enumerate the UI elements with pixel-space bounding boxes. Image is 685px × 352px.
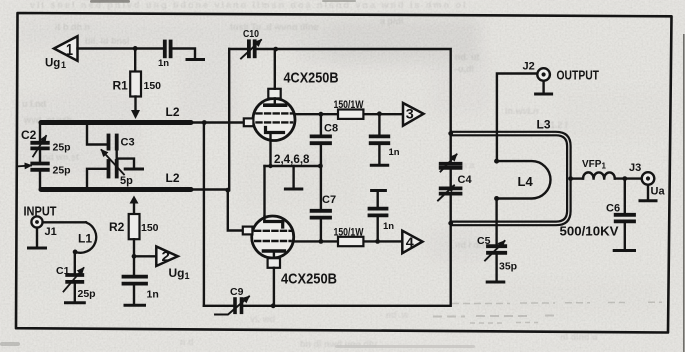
svg-text:25p: 25p bbox=[78, 288, 96, 300]
ground (J2) bbox=[536, 93, 552, 96]
inductor L3 (anode line, double) bbox=[451, 132, 571, 225]
inductor L2 (bottom bar) bbox=[41, 187, 191, 192]
choke VFP1 bbox=[571, 177, 583, 179]
svg-text:INPUT: INPUT bbox=[24, 205, 57, 219]
capacitor C9 neutralization bbox=[203, 123, 205, 306]
ground (cathode bus) bbox=[292, 166, 294, 187]
triangle 4 (screen feed-through) bbox=[402, 231, 422, 254]
capacitor 1n (U1 screen bypass) bbox=[378, 114, 380, 134]
node L3 bottom bbox=[448, 221, 453, 226]
wire tube2 anode bottom rail bbox=[273, 225, 451, 306]
svg-text:Ug: Ug bbox=[45, 58, 60, 70]
inductor L2 (top bar) bbox=[41, 120, 191, 125]
node tube1 grid / C9 neutralization junction bbox=[202, 120, 207, 125]
anode plate U1 bbox=[265, 103, 286, 107]
capacitor 1n (top left) bbox=[163, 42, 167, 57]
node tube1 anode bbox=[273, 47, 278, 52]
ground (C6) bbox=[614, 249, 634, 252]
trimmer arrow C3 bbox=[102, 150, 125, 175]
svg-text:1n: 1n bbox=[158, 58, 169, 69]
node C6 bbox=[622, 176, 627, 181]
svg-text:R1: R1 bbox=[113, 79, 129, 93]
ground (J3) bbox=[640, 199, 656, 202]
wire tube1 anode top rail bbox=[276, 49, 451, 131]
svg-text:C7: C7 bbox=[322, 194, 336, 206]
capacitor C3 upper section bbox=[107, 136, 111, 149]
svg-text:500/10KV: 500/10KV bbox=[560, 225, 620, 239]
svg-text:VFP1: VFP1 bbox=[582, 159, 606, 171]
svg-text:1: 1 bbox=[61, 60, 66, 70]
svg-text:Ua: Ua bbox=[651, 186, 666, 198]
svg-text:C2: C2 bbox=[21, 128, 37, 142]
inductor L4 (output coupling loop) bbox=[497, 161, 551, 198]
svg-text:J2: J2 bbox=[523, 61, 535, 73]
capacitor C2 lower 25p bbox=[32, 162, 48, 166]
grid pin box U1 bbox=[244, 118, 254, 126]
svg-text:L1: L1 bbox=[78, 232, 92, 246]
capacitor C10 neutralization bbox=[229, 48, 246, 50]
node VFP1 tap bbox=[568, 176, 573, 181]
wire between C2 sections bbox=[39, 151, 41, 162]
node tube2 anode bbox=[271, 303, 276, 308]
anode pin box U2 bbox=[273, 251, 275, 258]
ground (C5) bbox=[487, 281, 504, 284]
node 1n (U2 screen) bbox=[375, 239, 380, 244]
resistor 150/1W (U1 screen) bbox=[338, 110, 363, 119]
capacitor C2 upper 25p bbox=[32, 141, 48, 145]
wire top bar to C3 bbox=[87, 124, 106, 145]
svg-text:150: 150 bbox=[141, 222, 159, 234]
capacitor C3 lower section bbox=[107, 161, 111, 177]
node L1/C1 bbox=[73, 250, 78, 255]
wire triangle1 to R1 node to 1n bbox=[78, 47, 163, 49]
svg-text:3: 3 bbox=[406, 106, 414, 122]
tube U1 4CX250B (top) bbox=[253, 99, 295, 141]
svg-text:1n: 1n bbox=[389, 147, 400, 158]
cathode U1 bbox=[266, 128, 284, 133]
wire C3 rotor bbox=[115, 149, 117, 161]
svg-text:25p: 25p bbox=[53, 165, 71, 177]
wire L4 to C5 bbox=[495, 199, 497, 245]
capacitor 1n (U2 screen bypass, ground above) bbox=[372, 189, 386, 192]
cathode U2 bbox=[265, 220, 283, 223]
resistor R1 150 bbox=[134, 48, 136, 71]
svg-text:C10: C10 bbox=[243, 28, 259, 40]
svg-text:2,4,6,8: 2,4,6,8 bbox=[274, 152, 310, 166]
svg-text:150: 150 bbox=[144, 80, 162, 92]
capacitor C4 upper (anode tuning) bbox=[450, 131, 452, 162]
node C8 bbox=[319, 112, 324, 117]
inductor L1 (input loop) bbox=[43, 221, 86, 223]
svg-text:C3: C3 bbox=[121, 137, 135, 149]
svg-text:C1: C1 bbox=[56, 265, 70, 277]
resistor 150/1W (U2 screen) bbox=[338, 237, 363, 246]
resistor R2 150 with arrow to L2 bbox=[130, 196, 139, 204]
wire to triangle 2 bbox=[134, 255, 156, 257]
svg-text:150/1W: 150/1W bbox=[334, 227, 364, 239]
svg-text:150/1W: 150/1W bbox=[334, 99, 364, 111]
svg-text:C6: C6 bbox=[606, 203, 620, 215]
capacitor C6 500/10KV bbox=[624, 179, 626, 213]
svg-text:4CX250B: 4CX250B bbox=[284, 70, 339, 87]
node R2 / triangle2 / 1n bbox=[132, 254, 137, 259]
svg-text:C8: C8 bbox=[324, 123, 338, 135]
capacitor 1n (R2 bypass) bbox=[133, 256, 135, 274]
wire bottom bar to C3 bbox=[87, 169, 106, 188]
svg-text:25p: 25p bbox=[53, 142, 71, 154]
svg-text:4CX250B: 4CX250B bbox=[281, 271, 337, 288]
wire 1n to ground bbox=[173, 49, 195, 59]
capacitor C8 bbox=[320, 114, 322, 134]
wire L2 to tube1 grid bbox=[191, 121, 244, 123]
wire C3 rotor to ground bbox=[117, 159, 134, 167]
svg-text:L3: L3 bbox=[537, 118, 551, 132]
wire C2 rail (left end of lines) bbox=[39, 123, 41, 141]
svg-text:C5: C5 bbox=[477, 235, 491, 247]
capacitor C1 25p bbox=[74, 252, 76, 273]
svg-text:1: 1 bbox=[66, 42, 73, 59]
wire L2 to tube2 grid bbox=[191, 190, 243, 231]
capacitor C4 lower (anode tuning) bbox=[441, 186, 461, 190]
screen wire U2 to triangle 4 bbox=[294, 240, 403, 242]
anode pin box U1 bbox=[268, 89, 280, 99]
tube U2 4CX250B (bottom) bbox=[252, 216, 294, 258]
svg-text:C9: C9 bbox=[230, 286, 244, 298]
svg-text:1n: 1n bbox=[147, 289, 159, 301]
triangle 2 (Ug1 feed-through, points right) bbox=[156, 247, 178, 267]
svg-text:OUTPUT: OUTPUT bbox=[557, 69, 600, 83]
node tube2 grid / C10 neutralization junction bbox=[225, 188, 230, 193]
svg-text:J1: J1 bbox=[45, 226, 57, 238]
svg-text:L2: L2 bbox=[166, 105, 180, 119]
grid (dashed) U2 bbox=[255, 230, 291, 232]
svg-text:1n: 1n bbox=[383, 221, 394, 232]
anode plate U2 bbox=[264, 249, 285, 253]
svg-text:L4: L4 bbox=[518, 174, 534, 189]
ground (1n R2) bbox=[125, 304, 145, 307]
ground (1n U1) bbox=[371, 164, 387, 167]
ground (C1) bbox=[66, 301, 85, 304]
ground (C3) bbox=[125, 168, 142, 171]
screen wire U1 to triangle 3 bbox=[294, 113, 402, 115]
node C7 bottom bbox=[319, 239, 324, 244]
grid pin box U2 bbox=[243, 227, 253, 235]
svg-text:C4: C4 bbox=[458, 174, 473, 186]
wire cathode bus to tube2 cathode bbox=[263, 166, 265, 217]
node A (Ug1/R1 junction) bbox=[133, 46, 138, 51]
svg-text:5p: 5p bbox=[120, 175, 133, 187]
svg-text:2: 2 bbox=[162, 248, 171, 264]
triangle 3 (screen feed-through) bbox=[403, 103, 424, 126]
grid (dashed) U1 bbox=[257, 112, 293, 114]
ground (J1) bbox=[29, 247, 46, 250]
svg-text:4: 4 bbox=[406, 234, 414, 250]
svg-text:J3: J3 bbox=[629, 162, 641, 174]
cathode bus wire 2,4,6,8 bbox=[265, 165, 321, 167]
connector J2 bbox=[537, 68, 550, 81]
node cathode bus / C8-C7 bbox=[318, 164, 323, 169]
wire C10 to tube2 grid (cross neutralization) bbox=[228, 49, 230, 190]
svg-text:L2: L2 bbox=[166, 171, 180, 185]
wire L4 to J2 output bbox=[497, 74, 537, 162]
connector J3 Ua bbox=[642, 172, 655, 185]
wire C2 to bottom bar bbox=[39, 172, 41, 190]
node 1n (U1 screen) bbox=[377, 111, 382, 116]
capacitor C5 35p bbox=[488, 244, 505, 248]
node L3 top bbox=[448, 131, 453, 136]
capacitor C7 bbox=[312, 209, 330, 213]
connector J1 INPUT bbox=[31, 216, 42, 227]
svg-text:R2: R2 bbox=[109, 220, 125, 234]
triangle 1 (Ug1 feed-through, points left) bbox=[54, 36, 78, 61]
ground (top left) bbox=[187, 58, 204, 61]
svg-text:35p: 35p bbox=[499, 261, 517, 273]
